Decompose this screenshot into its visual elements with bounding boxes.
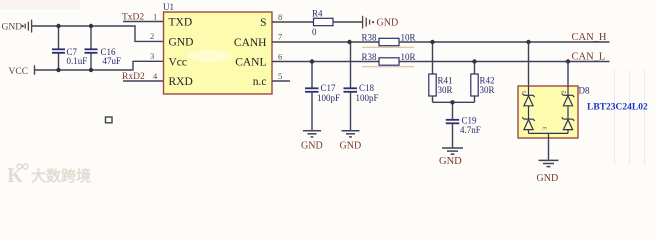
svg-text:RXD: RXD (169, 76, 193, 88)
svg-text:VCC: VCC (9, 67, 29, 77)
ground (under C17) (301, 131, 323, 152)
resistor R4 (312, 9, 333, 37)
svg-text:LBT23C24L02: LBT23C24L02 (587, 103, 648, 113)
svg-text:R38: R38 (362, 52, 378, 62)
svg-text:10R: 10R (401, 52, 416, 62)
svg-text:C17: C17 (321, 83, 337, 93)
node junction dots on CANH/CANL (310, 40, 570, 105)
ground (under C19) (439, 148, 463, 167)
svg-text:1: 1 (153, 11, 157, 21)
svg-text:5: 5 (278, 71, 282, 81)
svg-text:CAN_H: CAN_H (572, 32, 607, 43)
svg-text:100pF: 100pF (317, 93, 340, 103)
wire pin5 stub (n.c) (272, 80, 290, 82)
wire pin6 (CANL) to R38 (272, 61, 379, 63)
wire CANL bus (399, 61, 610, 63)
svg-text:R38: R38 (362, 32, 378, 42)
power port GND (right of R4) (363, 16, 399, 29)
wire pin4 (123, 80, 164, 82)
svg-text:R4: R4 (312, 9, 323, 19)
wire pin7 (CANH) to R38 (272, 41, 379, 43)
svg-text:CAN_L: CAN_L (572, 51, 606, 62)
svg-text:7: 7 (278, 32, 282, 42)
svg-text:30R: 30R (438, 85, 453, 95)
svg-text:R42: R42 (480, 76, 495, 86)
svg-text:C19: C19 (462, 115, 478, 125)
wire pin8 to R4 (272, 21, 314, 23)
svg-text:TXD: TXD (169, 17, 193, 29)
svg-text:GND: GND (340, 140, 362, 151)
power port GND (top-left) (25, 20, 31, 33)
ground (under D8) (537, 160, 559, 184)
svg-text:GND: GND (2, 22, 23, 32)
ground (under C18) (340, 131, 362, 152)
resistor R38 (CANH series) (362, 32, 416, 47)
capacitor C18 (344, 42, 379, 130)
svg-text:GND: GND (537, 173, 559, 184)
svg-text:30R: 30R (480, 85, 495, 95)
svg-text:GND: GND (301, 140, 323, 151)
svg-text:GND: GND (439, 156, 462, 167)
resistor R42 (471, 62, 495, 103)
IC U1 (CAN transceiver) (163, 2, 272, 94)
svg-text:8: 8 (278, 12, 282, 22)
power port VCC (left) (34, 65, 36, 74)
wire R4 to GND port (333, 21, 362, 23)
svg-text:1: 1 (522, 91, 528, 94)
svg-text:3: 3 (150, 51, 154, 61)
svg-text:D8: D8 (579, 86, 590, 96)
svg-text:2: 2 (150, 31, 154, 41)
wire pin1 (123, 21, 164, 23)
svg-text:C18: C18 (359, 83, 375, 93)
svg-text:大数跨境: 大数跨境 (31, 167, 91, 185)
wire CANH bus (399, 41, 610, 43)
capacitor C19 (446, 102, 481, 147)
wire D8 right pin to CANL (567, 62, 569, 87)
svg-text:GND: GND (377, 18, 399, 29)
wire VCC rail to pin 3 (35, 61, 164, 70)
svg-text:10R: 10R (401, 32, 416, 42)
capacitor C16 (85, 26, 122, 70)
wire GND rail to pin 2 (32, 26, 164, 41)
stray annotation square (106, 117, 113, 123)
svg-text:3: 3 (542, 127, 549, 130)
svg-text:4.7nF: 4.7nF (460, 125, 481, 135)
wire D8 pin3 to ground (548, 138, 550, 160)
svg-text:100pF: 100pF (356, 93, 379, 103)
svg-text:6: 6 (278, 51, 282, 61)
diode array D8 (518, 86, 590, 139)
svg-text:0.1uF: 0.1uF (67, 56, 88, 66)
svg-text:2: 2 (562, 91, 568, 94)
svg-text:47uF: 47uF (103, 56, 122, 66)
svg-text:GND: GND (169, 37, 194, 49)
wire D8 left pin to CANH (528, 42, 530, 86)
capacitor C17 (305, 62, 340, 131)
svg-text:R41: R41 (438, 76, 453, 86)
svg-text:U1: U1 (163, 2, 174, 12)
svg-text:0: 0 (312, 27, 317, 37)
node junction dots on rails (56, 24, 93, 72)
wire R41-R42 bottom link (433, 101, 475, 103)
svg-text:n.c: n.c (253, 76, 267, 88)
svg-text:Vcc: Vcc (169, 56, 188, 68)
resistor R41 (429, 42, 453, 102)
capacitor C7 (52, 26, 87, 70)
svg-text:S: S (260, 17, 266, 29)
svg-text:CANL: CANL (235, 57, 266, 69)
svg-text:CANH: CANH (234, 37, 267, 49)
resistor R38 (CANL series) (362, 52, 416, 67)
